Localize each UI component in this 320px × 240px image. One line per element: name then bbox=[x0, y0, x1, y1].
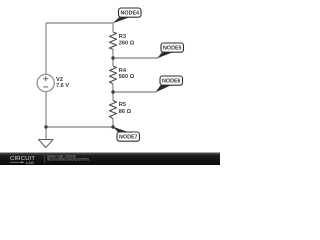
wire bottom horizontal bbox=[46, 126, 113, 128]
footer CircuitLab logo bbox=[10, 156, 35, 165]
node NODE4 bbox=[113, 8, 141, 23]
wire left vertical lower (V2 minus lead) bbox=[45, 92, 47, 128]
svg-text:260 Ω: 260 Ω bbox=[119, 40, 135, 46]
wire chain segment R4 to R5 bbox=[112, 84, 114, 101]
resistor R3 260 ohm bbox=[110, 32, 135, 50]
svg-text:NODE6: NODE6 bbox=[162, 79, 181, 85]
ground bbox=[39, 140, 54, 148]
wire right chain segment above R3 bbox=[112, 23, 114, 32]
node NODE5 bbox=[157, 43, 183, 58]
svg-text:LAB: LAB bbox=[26, 161, 34, 165]
wire chain segment R3 to R4 bbox=[112, 50, 114, 67]
wire top horizontal from V2 to resistor chain bbox=[46, 22, 113, 24]
junction dot at V2 minus / bottom rail bbox=[44, 125, 47, 128]
wire left vertical upper (V2 plus lead) bbox=[45, 23, 47, 75]
footer bar bbox=[0, 153, 220, 166]
node NODE6 bbox=[155, 76, 182, 92]
svg-text:NODE5: NODE5 bbox=[163, 46, 182, 52]
junction dot at bottom of chain bbox=[111, 125, 114, 128]
node NODE7 bbox=[113, 127, 140, 142]
svg-text:NODE7: NODE7 bbox=[119, 135, 138, 141]
wire to NODE6 bbox=[113, 91, 156, 93]
junction dot at R3/R4 node bbox=[111, 56, 114, 59]
svg-text:NODE4: NODE4 bbox=[121, 11, 140, 17]
wire chain segment below R5 bbox=[112, 119, 114, 128]
svg-text:R5: R5 bbox=[119, 102, 126, 108]
resistor R4 560 ohm bbox=[110, 66, 135, 84]
junction dot at R4/R5 node bbox=[111, 90, 114, 93]
wire ground stem bbox=[45, 127, 47, 139]
voltage source V2 bbox=[37, 74, 69, 91]
wire to NODE5 bbox=[113, 57, 158, 59]
svg-text:7.6 V: 7.6 V bbox=[56, 83, 69, 89]
svg-text:560 Ω: 560 Ω bbox=[119, 74, 135, 80]
footer divider bbox=[44, 155, 46, 164]
resistor R5 86 ohm bbox=[110, 101, 132, 119]
svg-text:R3: R3 bbox=[119, 34, 126, 40]
svg-text:http://circuitlab.com/c/hqchzk: http://circuitlab.com/c/hqchzk75f7a bbox=[47, 157, 89, 161]
svg-text:86 Ω: 86 Ω bbox=[119, 109, 132, 115]
